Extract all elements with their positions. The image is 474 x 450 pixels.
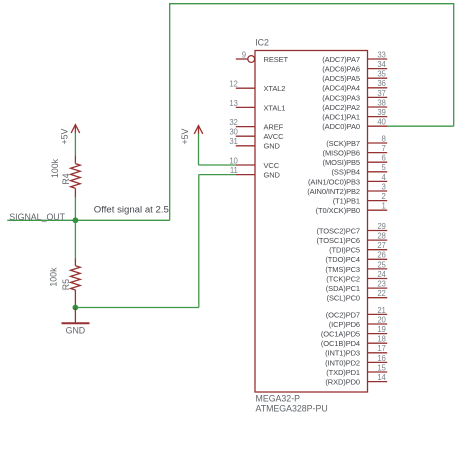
svg-text:100k: 100k bbox=[48, 267, 58, 287]
pin 18 (OC1B)PD4 (right) bbox=[321, 335, 387, 349]
svg-text:(T0/XCK)PB0: (T0/XCK)PB0 bbox=[316, 206, 360, 215]
pin 17 (INT1)PD3 (right) bbox=[325, 344, 387, 358]
svg-text:(TCK)PC2: (TCK)PC2 bbox=[326, 274, 360, 283]
pin 5 (SS)PB4 (right) bbox=[332, 163, 388, 177]
svg-text:(MOSI)PB5: (MOSI)PB5 bbox=[323, 158, 360, 167]
svg-text:3: 3 bbox=[382, 182, 386, 191]
pin 20 (ICP)PD6 (right) bbox=[329, 315, 387, 329]
svg-text:(ADC2)PA2: (ADC2)PA2 bbox=[322, 103, 360, 112]
label Offet signal at 2.5 bbox=[94, 205, 169, 216]
svg-text:30: 30 bbox=[229, 128, 238, 137]
svg-text:19: 19 bbox=[377, 325, 385, 334]
svg-text:XTAL1: XTAL1 bbox=[264, 103, 286, 112]
svg-text:6: 6 bbox=[382, 154, 386, 163]
pin 14 (RXD)PD0 (right) bbox=[325, 373, 387, 387]
pin 26 (TDO)PC4 (right) bbox=[325, 251, 387, 265]
pin 35 (ADC5)PA5 (right) bbox=[322, 70, 387, 84]
svg-text:(ADC4)PA4: (ADC4)PA4 bbox=[322, 84, 360, 93]
svg-text:R4: R4 bbox=[61, 173, 71, 184]
IC2 body outline bbox=[255, 51, 368, 393]
wire SIGNAL_OUT vertical riser to top bbox=[169, 4, 171, 221]
wire GND into pin 11 bbox=[199, 174, 236, 176]
pin 1 (T0/XCK)PB0 (right) bbox=[316, 202, 388, 216]
svg-text:Offet signal at 2.5: Offet signal at 2.5 bbox=[94, 205, 169, 216]
svg-text:(OC1B)PD4: (OC1B)PD4 bbox=[321, 339, 360, 348]
pin 37 (ADC3)PA3 (right) bbox=[322, 89, 387, 103]
svg-text:2: 2 bbox=[382, 192, 386, 201]
pin 7 (MISO)PB6 (right) bbox=[323, 144, 388, 158]
resistor R4 100k bbox=[50, 155, 80, 197]
wire GND rail horizontal R5 to riser bbox=[75, 307, 198, 309]
svg-text:34: 34 bbox=[377, 60, 386, 69]
ground symbol GND bbox=[62, 308, 90, 336]
svg-text:10: 10 bbox=[229, 156, 238, 165]
wire net SIGNAL_OUT horizontal segment bbox=[7, 219, 169, 221]
junction node SIGNAL_OUT divider tap bbox=[73, 217, 79, 223]
pin 28 (TOSC1)PC6 (right) bbox=[317, 232, 388, 246]
pin 19 (OC1A)PD5 (right) bbox=[321, 325, 387, 339]
pin 4 (AIN1/OC0)PB3 (right) bbox=[308, 173, 387, 187]
svg-text:15: 15 bbox=[377, 363, 386, 372]
svg-text:(OC2)PD7: (OC2)PD7 bbox=[326, 310, 360, 319]
svg-text:21: 21 bbox=[377, 306, 385, 315]
svg-text:(ICP)PD6: (ICP)PD6 bbox=[329, 320, 360, 329]
svg-text:28: 28 bbox=[377, 232, 385, 241]
svg-text:(INT0)PD2: (INT0)PD2 bbox=[325, 358, 360, 367]
svg-text:(ADC3)PA3: (ADC3)PA3 bbox=[322, 93, 360, 102]
svg-text:(OC1A)PD5: (OC1A)PD5 bbox=[321, 330, 360, 339]
svg-text:(SS)PB4: (SS)PB4 bbox=[332, 168, 360, 177]
svg-text:37: 37 bbox=[377, 89, 385, 98]
svg-text:(TOSC2)PC7: (TOSC2)PC7 bbox=[317, 226, 360, 235]
svg-text:(TOSC1)PC6: (TOSC1)PC6 bbox=[317, 236, 360, 245]
svg-text:38: 38 bbox=[377, 98, 385, 107]
pin 23 (SDA)PC1 (right) bbox=[326, 280, 387, 294]
svg-text:27: 27 bbox=[377, 241, 385, 250]
pin 31 GND (left) bbox=[229, 137, 280, 151]
svg-text:(RXD)PD0: (RXD)PD0 bbox=[325, 378, 360, 387]
pin 15 (TXD)PD1 (right) bbox=[326, 363, 387, 377]
pin 38 (ADC2)PA2 (right) bbox=[322, 98, 387, 112]
pin 40 (ADC0)PA0 (right) bbox=[322, 118, 387, 132]
svg-text:5: 5 bbox=[382, 163, 387, 172]
svg-text:(ADC6)PA6: (ADC6)PA6 bbox=[322, 65, 360, 74]
wire SIGNAL_OUT right vertical drop bbox=[453, 3, 455, 126]
supply +5V symbol (left, above R4) bbox=[59, 125, 79, 145]
svg-text:23: 23 bbox=[377, 280, 385, 289]
svg-text:13: 13 bbox=[229, 99, 237, 108]
svg-text:26: 26 bbox=[377, 251, 385, 260]
svg-text:(AIN1/OC0)PB3: (AIN1/OC0)PB3 bbox=[308, 177, 360, 186]
pin 29 (TOSC2)PC7 (right) bbox=[317, 222, 388, 236]
junction node GND rail at R5 bottom bbox=[73, 305, 79, 311]
wire GND riser up to pin 11 bbox=[198, 175, 200, 308]
svg-text:GND: GND bbox=[264, 142, 281, 151]
pin 11 GND (left) bbox=[230, 166, 281, 180]
svg-text:(MISO)PB6: (MISO)PB6 bbox=[323, 149, 360, 158]
svg-text:(ADC5)PA5: (ADC5)PA5 bbox=[322, 74, 360, 83]
svg-text:16: 16 bbox=[377, 354, 385, 363]
pin 13 XTAL1 (left) bbox=[229, 99, 285, 113]
svg-text:7: 7 bbox=[382, 144, 386, 153]
pin 36 (ADC4)PA4 (right) bbox=[322, 79, 387, 93]
svg-text:24: 24 bbox=[377, 270, 386, 279]
svg-text:AVCC: AVCC bbox=[264, 132, 285, 141]
node SIGNAL_OUT label bbox=[9, 212, 65, 222]
svg-text:GND: GND bbox=[264, 171, 281, 180]
svg-text:RESET: RESET bbox=[264, 55, 289, 64]
wire +5V to R4 top bbox=[74, 133, 76, 156]
svg-text:40: 40 bbox=[377, 118, 386, 127]
svg-text:(TDI)PC5: (TDI)PC5 bbox=[329, 246, 360, 255]
svg-text:SIGNAL_OUT: SIGNAL_OUT bbox=[9, 212, 65, 222]
pin 39 (ADC1)PA1 (right) bbox=[322, 108, 387, 122]
svg-text:XTAL2: XTAL2 bbox=[264, 84, 286, 93]
svg-text:(TMS)PC3: (TMS)PC3 bbox=[325, 265, 360, 274]
svg-text:+5V: +5V bbox=[59, 128, 69, 144]
pin 21 (OC2)PD7 (right) bbox=[326, 306, 387, 320]
pin 24 (TCK)PC2 (right) bbox=[326, 270, 387, 284]
svg-text:100k: 100k bbox=[50, 158, 60, 178]
svg-text:MEGA32-P: MEGA32-P bbox=[256, 394, 301, 404]
pin 9 RESET (left) bbox=[236, 50, 289, 64]
svg-text:IC2: IC2 bbox=[255, 38, 269, 48]
svg-text:25: 25 bbox=[377, 260, 386, 269]
svg-text:(AIN0/INT2)PB2: (AIN0/INT2)PB2 bbox=[307, 187, 360, 196]
pin 34 (ADC6)PA6 (right) bbox=[322, 60, 387, 74]
svg-text:29: 29 bbox=[377, 222, 385, 231]
svg-text:36: 36 bbox=[377, 79, 385, 88]
svg-text:+5V: +5V bbox=[180, 128, 190, 144]
pin 30 AVCC (left) bbox=[229, 128, 284, 142]
svg-text:1: 1 bbox=[382, 202, 386, 211]
pin 2 (T1)PB1 (right) bbox=[333, 192, 387, 206]
pin 8 (SCK)PB7 (right) bbox=[326, 134, 387, 148]
svg-text:AREF: AREF bbox=[264, 123, 284, 132]
svg-text:33: 33 bbox=[377, 50, 385, 59]
pin 6 (MOSI)PB5 (right) bbox=[323, 154, 388, 168]
pin 32 AREF (left) bbox=[229, 118, 283, 132]
svg-text:GND: GND bbox=[66, 326, 86, 336]
svg-text:(SDA)PC1: (SDA)PC1 bbox=[326, 284, 360, 293]
svg-text:14: 14 bbox=[377, 373, 386, 382]
svg-text:4: 4 bbox=[382, 173, 387, 182]
svg-text:VCC: VCC bbox=[264, 161, 280, 170]
wire +5V to VCC pin 10 bbox=[199, 134, 236, 166]
svg-text:32: 32 bbox=[229, 118, 237, 127]
svg-text:ATMEGA328P-PU: ATMEGA328P-PU bbox=[256, 404, 328, 414]
svg-text:(ADC7)PA7: (ADC7)PA7 bbox=[322, 55, 360, 64]
supply +5V symbol (right, above VCC pin 10) bbox=[180, 126, 203, 145]
wire junction to R5 top bbox=[74, 220, 76, 258]
pin 12 XTAL2 (left) bbox=[229, 80, 285, 94]
svg-text:(ADC1)PA1: (ADC1)PA1 bbox=[322, 113, 360, 122]
resistor R5 100k bbox=[48, 259, 80, 307]
pin 10 VCC (left) bbox=[229, 156, 279, 170]
wire R4 bottom to junction bbox=[74, 198, 76, 221]
svg-text:(SCL)PC0: (SCL)PC0 bbox=[327, 294, 360, 303]
pin 22 (SCL)PC0 (right) bbox=[327, 289, 388, 303]
wire SIGNAL_OUT top horizontal run bbox=[169, 3, 454, 5]
svg-text:8: 8 bbox=[382, 134, 386, 143]
svg-text:9: 9 bbox=[242, 50, 246, 59]
svg-text:(T1)PB1: (T1)PB1 bbox=[333, 197, 360, 206]
svg-text:39: 39 bbox=[377, 108, 385, 117]
svg-text:(ADC0)PA0: (ADC0)PA0 bbox=[322, 122, 360, 131]
wire into pin 40 PA0/ADC0 bbox=[387, 125, 454, 127]
svg-text:35: 35 bbox=[377, 70, 386, 79]
pin 16 (INT0)PD2 (right) bbox=[325, 354, 387, 368]
svg-text:(TXD)PD1: (TXD)PD1 bbox=[326, 368, 360, 377]
svg-text:R5: R5 bbox=[61, 279, 71, 290]
svg-text:(INT1)PD3: (INT1)PD3 bbox=[325, 349, 360, 358]
svg-text:11: 11 bbox=[230, 166, 238, 175]
svg-text:18: 18 bbox=[377, 335, 385, 344]
microcontroller IC2 ATMEGA328P-PU (MEGA32-P symbol) bbox=[229, 38, 387, 414]
svg-text:(TDO)PC4: (TDO)PC4 bbox=[325, 255, 360, 264]
pin 3 (AIN0/INT2)PB2 (right) bbox=[307, 182, 387, 196]
svg-text:31: 31 bbox=[229, 137, 237, 146]
svg-text:(SCK)PB7: (SCK)PB7 bbox=[326, 139, 360, 148]
pin 25 (TMS)PC3 (right) bbox=[325, 260, 387, 274]
svg-text:17: 17 bbox=[377, 344, 385, 353]
svg-text:20: 20 bbox=[377, 315, 386, 324]
pin 33 (ADC7)PA7 (right) bbox=[322, 50, 387, 64]
pin 27 (TDI)PC5 (right) bbox=[329, 241, 387, 255]
svg-text:12: 12 bbox=[229, 80, 237, 89]
svg-text:22: 22 bbox=[377, 289, 385, 298]
